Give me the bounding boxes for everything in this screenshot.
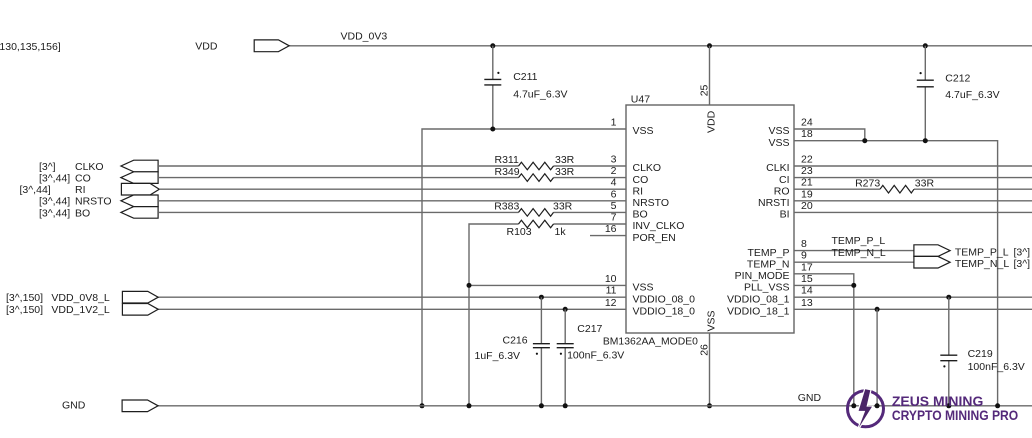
port RI — [121, 183, 159, 195]
svg-text:[3^]: [3^] — [1014, 258, 1031, 270]
svg-text:VDD: VDD — [706, 110, 718, 133]
svg-text:RI: RI — [633, 185, 644, 197]
svg-text:[3^,150]: [3^,150] — [6, 292, 43, 304]
svg-text:CLKI: CLKI — [766, 162, 789, 174]
svg-text:TEMP_N_L: TEMP_N_L — [955, 258, 1009, 270]
svg-text:[3^]: [3^] — [1014, 246, 1031, 258]
svg-text:R311: R311 — [495, 154, 519, 166]
wire CLKI row — [794, 165, 1032, 167]
IC U47 left pin names — [633, 125, 696, 317]
svg-text:NRSTO: NRSTO — [633, 197, 670, 209]
IC U47 left pin numbers — [605, 117, 617, 309]
wire VDDIO_08_1 row — [794, 296, 1032, 298]
svg-text:9: 9 — [801, 250, 807, 262]
svg-text:12: 12 — [605, 297, 617, 309]
svg-text:24: 24 — [801, 117, 813, 129]
wire BO row — [158, 211, 626, 213]
svg-text:VDD_0V3: VDD_0V3 — [341, 30, 388, 42]
node VDD_0V3 junction C212 — [923, 43, 928, 48]
svg-text:[3^,44]: [3^,44] — [39, 196, 70, 208]
port NRSTO — [121, 195, 158, 207]
svg-text:4.7uF_6.3V: 4.7uF_6.3V — [513, 88, 567, 100]
wire TEMP_P row — [794, 250, 914, 252]
svg-text:R273: R273 — [855, 177, 880, 189]
svg-text:3: 3 — [611, 154, 617, 166]
svg-text:INV_CLKO: INV_CLKO — [633, 220, 685, 232]
svg-text:VDD_1V2_L: VDD_1V2_L — [51, 304, 110, 316]
svg-text:BO: BO — [75, 207, 90, 219]
svg-text:CLKO: CLKO — [75, 161, 104, 173]
wire CLKO row — [158, 165, 626, 167]
svg-text:BM1362AA_MODE0: BM1362AA_MODE0 — [603, 336, 698, 348]
svg-text:7: 7 — [611, 212, 617, 224]
svg-text:100nF_6.3V: 100nF_6.3V — [567, 349, 624, 361]
svg-text:VDDIO_08_1: VDDIO_08_1 — [727, 293, 790, 305]
svg-text:TEMP_N_L: TEMP_N_L — [832, 247, 886, 259]
svg-text:4.7uF_6.3V: 4.7uF_6.3V — [945, 89, 999, 101]
port GND — [122, 400, 158, 412]
wire CO row — [158, 177, 626, 179]
port VDD_0V8_L — [122, 291, 158, 303]
svg-text:C211: C211 — [513, 71, 537, 83]
node VDD_0V3 junction C211 — [490, 43, 495, 48]
wire INV_CLKO row with left drop to GND — [469, 224, 626, 406]
svg-text:8: 8 — [801, 238, 807, 250]
resistor R103 1k — [519, 220, 554, 228]
svg-text:CRYPTO MINING PRO: CRYPTO MINING PRO — [892, 407, 1018, 423]
svg-text:VDD_0V8_L: VDD_0V8_L — [51, 292, 110, 304]
port CO — [121, 172, 158, 184]
wire pin10 VSS row — [469, 284, 626, 286]
svg-text:NRSTO: NRSTO — [75, 196, 112, 208]
wire pin24 VSS — [794, 129, 865, 141]
svg-text:2: 2 — [611, 165, 617, 177]
svg-text:[3^,44]: [3^,44] — [39, 207, 70, 219]
svg-text:TEMP_P_L: TEMP_P_L — [832, 235, 886, 247]
wire NRSTO row — [158, 200, 626, 202]
logo Zeus Mining circle — [848, 391, 884, 427]
svg-text:R349: R349 — [495, 166, 520, 178]
wire POR_EN stub — [590, 235, 626, 237]
svg-text:VSS: VSS — [633, 282, 654, 294]
svg-text:18: 18 — [801, 128, 813, 140]
node GND junction C216 — [539, 403, 544, 408]
svg-text:CI: CI — [779, 174, 790, 186]
svg-text:R103: R103 — [507, 226, 532, 238]
svg-text:1: 1 — [611, 117, 617, 129]
IC U47 right pin numbers — [801, 117, 813, 309]
svg-text:C219: C219 — [968, 348, 993, 360]
svg-text:C217: C217 — [577, 323, 602, 335]
node VDDIO_08_1 junction C219 — [946, 295, 951, 300]
svg-text:BI: BI — [780, 209, 790, 221]
node GND junction C219 — [946, 403, 951, 408]
svg-text:U47: U47 — [631, 94, 650, 106]
svg-text:GND: GND — [798, 392, 822, 404]
node VDD_0V3 junction pin25 — [707, 43, 712, 48]
svg-text:5: 5 — [611, 200, 617, 212]
wire VDD_0V3 rail — [289, 45, 1032, 47]
wire VDD_1V2_L row — [158, 308, 626, 310]
svg-text:100nF_6.3V: 100nF_6.3V — [968, 361, 1025, 373]
pin 25 stub — [709, 46, 711, 105]
svg-text:33R: 33R — [553, 201, 573, 213]
svg-text:15: 15 — [801, 273, 813, 285]
svg-text:CO: CO — [633, 174, 649, 186]
svg-text:[3^,150]: [3^,150] — [6, 304, 43, 316]
svg-text:C212: C212 — [945, 73, 970, 85]
svg-text:23: 23 — [801, 165, 813, 177]
node VDDIO_18_1 junction drop — [875, 307, 880, 312]
wire VDD_0V8_L row — [158, 296, 626, 298]
svg-text:,130,135,156]: ,130,135,156] — [0, 41, 61, 53]
resistor R311 33R — [519, 162, 554, 170]
capacitor C217 — [564, 309, 566, 406]
port CLKO — [121, 160, 158, 172]
svg-text:C216: C216 — [503, 335, 528, 347]
svg-text:22: 22 — [801, 154, 813, 166]
svg-text:R383: R383 — [494, 201, 519, 213]
port VDD_1V2_L — [122, 304, 158, 316]
svg-text:[3^]: [3^] — [39, 161, 56, 173]
wire pin1 VSS — [422, 129, 626, 406]
svg-text:11: 11 — [606, 285, 617, 297]
svg-text:19: 19 — [801, 188, 813, 200]
svg-text:BO: BO — [633, 209, 648, 221]
svg-text:1uF_6.3V: 1uF_6.3V — [475, 350, 521, 362]
svg-text:PLL_VSS: PLL_VSS — [744, 282, 790, 294]
svg-text:14: 14 — [801, 285, 813, 297]
svg-text:25: 25 — [699, 84, 711, 96]
svg-text:4: 4 — [611, 177, 617, 189]
svg-text:17: 17 — [801, 261, 813, 273]
svg-text:33R: 33R — [915, 177, 935, 189]
svg-text:GND: GND — [62, 399, 86, 411]
svg-text:[3^,44]: [3^,44] — [20, 184, 51, 196]
node GND junction INV_CLKO vertical — [467, 403, 472, 408]
svg-text:VSS: VSS — [706, 310, 718, 331]
port TEMP_P_L — [914, 245, 950, 257]
svg-text:CO: CO — [75, 173, 91, 185]
svg-text:NRSTI: NRSTI — [758, 197, 790, 209]
node VDD_0V8_L junction C216 — [539, 295, 544, 300]
wire GND rail — [158, 405, 1032, 407]
node GND junction left vertical — [420, 403, 425, 408]
node GND junction pin26 — [707, 403, 712, 408]
wire pin18 VSS to right drop — [794, 141, 998, 406]
capacitor C212 — [924, 46, 926, 141]
port VDD — [254, 40, 289, 52]
svg-text:[3^,44]: [3^,44] — [39, 173, 70, 185]
svg-text:RO: RO — [774, 185, 790, 197]
svg-text:VSS: VSS — [768, 125, 789, 137]
capacitor C211 — [492, 46, 494, 129]
svg-text:VSS: VSS — [768, 137, 789, 149]
port TEMP_N_L — [914, 256, 950, 268]
pin 26 stub — [709, 333, 711, 406]
svg-text:CLKO: CLKO — [633, 162, 662, 174]
wire CI row — [794, 177, 1032, 179]
wire PLL_VSS row — [794, 284, 854, 286]
svg-text:RI: RI — [75, 184, 86, 196]
node GND junction PIN_MODE drop — [851, 403, 856, 408]
svg-text:VDDIO_18_1: VDDIO_18_1 — [727, 306, 790, 318]
node VSS junction C212 bottom — [923, 138, 928, 143]
svg-text:VDDIO_18_0: VDDIO_18_0 — [633, 306, 696, 318]
capacitor C219 — [948, 297, 950, 406]
port BO — [121, 207, 158, 219]
wire VDDIO_18_1 row — [794, 308, 1032, 310]
wire VDDIO_18_1 drop to GND — [876, 309, 878, 406]
svg-text:21: 21 — [801, 177, 813, 189]
svg-text:33R: 33R — [555, 166, 575, 178]
svg-text:16: 16 — [605, 223, 617, 235]
node VSS pin10 junction — [467, 283, 472, 288]
node VSS junction 24-18 — [862, 138, 867, 143]
resistor R349 33R — [519, 174, 554, 182]
node VDD_1V2_L junction C217 — [563, 307, 568, 312]
svg-text:TEMP_N: TEMP_N — [747, 258, 790, 270]
wire RI row — [159, 188, 626, 190]
node VSS junction C211 bottom — [490, 127, 495, 132]
svg-text:6: 6 — [611, 188, 617, 200]
svg-text:1k: 1k — [555, 226, 567, 238]
resistor R383 33R — [519, 209, 554, 217]
wire RO row — [794, 188, 1032, 190]
svg-text:VDDIO_08_0: VDDIO_08_0 — [633, 293, 696, 305]
svg-text:TEMP_P_L: TEMP_P_L — [955, 246, 1009, 258]
svg-text:POR_EN: POR_EN — [633, 232, 676, 244]
capacitor C216 — [540, 297, 542, 406]
wire NRSTI row — [794, 200, 1032, 202]
node PLL_VSS junction — [851, 283, 856, 288]
svg-text:PIN_MODE: PIN_MODE — [735, 270, 790, 282]
wire TEMP_N row — [794, 261, 914, 263]
resistor R273 33R — [880, 185, 914, 193]
node GND junction C217 — [563, 403, 568, 408]
node GND junction VDDIO_18_1 drop — [875, 403, 880, 408]
svg-text:33R: 33R — [555, 154, 575, 166]
wire BI row — [794, 211, 1032, 213]
svg-text:VDD: VDD — [195, 41, 218, 53]
node GND junction right VSS drop — [995, 403, 1000, 408]
wire PIN_MODE row corner down — [794, 274, 854, 406]
svg-text:13: 13 — [801, 297, 813, 309]
IC U47 right pin names — [727, 125, 790, 317]
svg-text:10: 10 — [605, 273, 617, 285]
svg-text:VSS: VSS — [633, 125, 654, 137]
IC U47 body — [626, 105, 794, 333]
logo lightning bolt — [859, 389, 872, 428]
svg-text:20: 20 — [801, 200, 813, 212]
svg-text:TEMP_P: TEMP_P — [747, 247, 789, 259]
svg-text:26: 26 — [699, 344, 711, 356]
